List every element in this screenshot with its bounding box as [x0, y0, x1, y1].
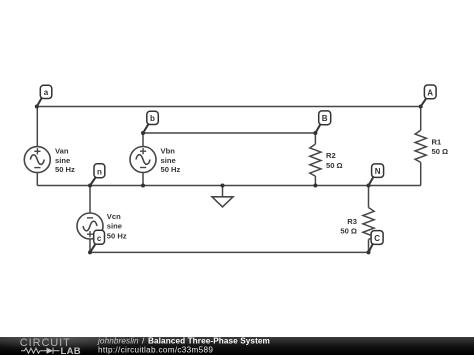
node label B [315, 111, 330, 133]
wire a to Van top [36, 107, 38, 147]
wire Van bottom to neutral [36, 173, 38, 186]
wire B to R2 top [314, 133, 316, 144]
node label A [421, 85, 436, 107]
junction ground [221, 184, 225, 188]
wire bottom c-C [90, 251, 369, 253]
svg-text:Van: Van [55, 146, 69, 155]
svg-text:b: b [150, 114, 155, 123]
svg-text:LAB: LAB [61, 346, 81, 355]
svg-text:c: c [97, 234, 102, 243]
wire b-B [143, 132, 315, 134]
label R1 50 ohm [432, 137, 449, 156]
svg-text:sine: sine [55, 156, 70, 165]
wire Vbn bottom to neutral [142, 172, 144, 185]
svg-text:50 Hz: 50 Hz [161, 165, 181, 174]
junction node N [367, 184, 371, 188]
node label C [369, 231, 384, 253]
svg-text:A: A [427, 88, 433, 97]
voltage source Van [24, 147, 50, 173]
label R2 50 ohm [326, 151, 343, 170]
svg-text:50 Ω: 50 Ω [326, 161, 343, 170]
wire R1 bottom to neutral [420, 162, 422, 185]
wire R2 bottom to neutral [314, 176, 316, 185]
wire Vcn bottom to node c [89, 239, 91, 253]
junction R2 bottom [313, 184, 317, 188]
voltage source Vbn [130, 147, 156, 173]
wire A to R1 top [420, 107, 422, 131]
wire R3 bottom to node C [368, 240, 370, 253]
label Vbn sine 50 Hz [161, 146, 181, 174]
resistor R2 [310, 144, 321, 176]
node label N [369, 164, 384, 186]
footer bar [0, 337, 474, 355]
svg-text:50 Ω: 50 Ω [340, 227, 357, 236]
svg-text:C: C [374, 234, 380, 243]
wire top a-A [37, 106, 421, 108]
svg-text:N: N [375, 167, 381, 176]
label Van sine 50 Hz [55, 146, 75, 174]
node label a [37, 85, 52, 106]
junction node a-top [35, 105, 39, 109]
node label c [90, 230, 105, 252]
junction node A-top [419, 105, 423, 109]
svg-text:50 Hz: 50 Hz [107, 231, 127, 240]
svg-text:50 Hz: 50 Hz [55, 165, 75, 174]
junction node n [88, 184, 92, 188]
wire neutral n [37, 185, 420, 187]
node label n [90, 164, 105, 186]
svg-text:Balanced Three-Phase System: Balanced Three-Phase System [148, 337, 270, 346]
label R3 50 ohm [340, 217, 357, 236]
svg-text:R3: R3 [347, 217, 357, 226]
junction node c [88, 250, 92, 254]
svg-text:B: B [322, 114, 328, 123]
svg-text:http://circuitlab.com/c33m589: http://circuitlab.com/c33m589 [98, 345, 213, 354]
svg-text:n: n [97, 167, 102, 176]
resistor R1 [415, 130, 426, 162]
voltage source Vcn [77, 213, 103, 239]
CircuitLab logo [20, 337, 81, 355]
svg-text:Vcn: Vcn [107, 212, 121, 221]
wire n to Vcn top [89, 186, 91, 214]
ground [212, 186, 233, 207]
svg-text:sine: sine [161, 156, 176, 165]
resistor R3 [363, 208, 374, 240]
svg-text:R1: R1 [432, 137, 442, 146]
node label b [143, 111, 158, 133]
junction Vbn bottom [141, 184, 145, 188]
wire N to R3 top [368, 186, 370, 208]
footer credit text [97, 337, 270, 355]
junction node B [313, 131, 317, 135]
junction node b [141, 131, 145, 135]
junction node C [367, 250, 371, 254]
wire b to Vbn top [142, 133, 144, 147]
svg-text:Vbn: Vbn [161, 146, 176, 155]
svg-text:R2: R2 [326, 151, 336, 160]
svg-text:50 Ω: 50 Ω [432, 147, 449, 156]
label Vcn sine 50 Hz [107, 212, 127, 241]
svg-text:johnbreslin: johnbreslin [97, 337, 139, 346]
svg-text:sine: sine [107, 222, 122, 231]
svg-text:a: a [44, 88, 49, 97]
